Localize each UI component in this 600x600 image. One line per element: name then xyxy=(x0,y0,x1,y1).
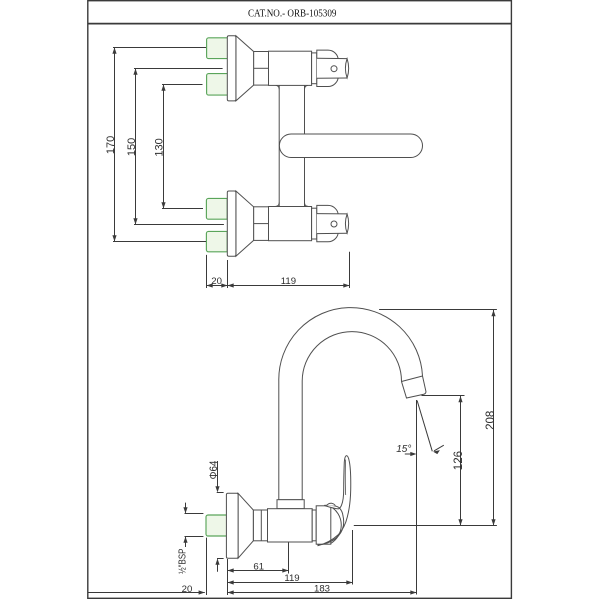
spout top ref line xyxy=(379,309,497,311)
svg-text:170: 170 xyxy=(105,136,117,154)
ext wall xyxy=(227,559,229,595)
dim 20/119 baseline xyxy=(207,285,350,287)
lower inlet assembly xyxy=(227,191,348,256)
bsp line lower xyxy=(185,537,187,548)
neck band xyxy=(312,53,317,84)
dim 20 leader line xyxy=(89,592,205,594)
spout pipe (top view) xyxy=(279,134,422,158)
dim 130 ext bottom xyxy=(162,208,203,210)
nose end cap xyxy=(345,59,348,78)
dim texts side view xyxy=(176,411,496,595)
neck band xyxy=(312,208,317,239)
phi64 upper stub xyxy=(217,461,219,488)
handle nose cylinder xyxy=(317,58,347,78)
dim 130 ext top xyxy=(162,84,203,86)
svg-text:20: 20 xyxy=(182,584,193,595)
nipple G1 xyxy=(207,38,228,59)
nozzle ref line xyxy=(422,395,465,397)
wall-bar column xyxy=(278,85,280,207)
svg-text:20: 20 xyxy=(211,276,222,287)
svg-text:61: 61 xyxy=(253,561,264,572)
svg-text:208: 208 xyxy=(485,411,497,430)
bell top bump xyxy=(327,503,336,505)
dim 150 ext top xyxy=(134,68,223,70)
flange cone side xyxy=(238,493,253,558)
dim 150 ext bottom xyxy=(134,224,224,226)
axis ref line xyxy=(354,525,497,527)
slant end leader xyxy=(434,445,444,451)
flange plate xyxy=(227,191,236,256)
riser collar xyxy=(277,500,304,509)
small connector rect xyxy=(254,207,269,241)
valve body xyxy=(268,509,313,542)
dim 130 line xyxy=(163,85,165,209)
arrows of side view xyxy=(183,310,495,595)
bsp ref lower xyxy=(185,536,204,538)
screw hole xyxy=(331,221,337,227)
svg-text:126: 126 xyxy=(453,451,465,470)
nipple G2 xyxy=(207,74,228,96)
phi64 lower ref xyxy=(217,558,224,560)
ext body axis xyxy=(288,543,290,574)
ext line left xyxy=(206,255,208,288)
lever blade xyxy=(318,456,351,546)
dim 126 line xyxy=(460,396,462,526)
column fillets xyxy=(276,85,308,206)
phi64 upper ref xyxy=(217,492,224,494)
ext line from nozzle to 183 xyxy=(416,400,418,595)
flange plate xyxy=(227,36,236,101)
handle bell xyxy=(317,205,339,241)
svg-text:119: 119 xyxy=(284,573,299,584)
upper inlet assembly xyxy=(227,36,348,101)
dim 208 line xyxy=(493,310,495,526)
gooseneck spout xyxy=(279,308,426,500)
svg-text:15°: 15° xyxy=(396,444,411,455)
svg-text:CAT.NO.- ORB-105309: CAT.NO.- ORB-105309 xyxy=(248,8,337,20)
ext line mid xyxy=(227,260,229,288)
15 deg slant line xyxy=(417,401,432,452)
nipple G4 xyxy=(206,231,227,251)
svg-text:½"BSP: ½"BSP xyxy=(176,549,188,575)
body block U2 xyxy=(269,207,312,241)
svg-text:183: 183 xyxy=(314,583,330,594)
green nipple side view xyxy=(206,515,227,536)
blade inner line xyxy=(344,460,346,496)
dimensions of top view xyxy=(113,48,350,289)
handle bell side xyxy=(316,506,331,544)
arrows of top view xyxy=(112,48,349,288)
15 deg leader xyxy=(405,453,415,455)
handle nose cylinder xyxy=(317,214,347,234)
nose end cap xyxy=(345,214,348,233)
frame border xyxy=(88,1,512,599)
bsp ref upper xyxy=(185,513,204,515)
dimensions of side view xyxy=(89,310,497,596)
bell dome D-arc xyxy=(331,507,341,544)
handle bell xyxy=(317,50,339,86)
dim texts top view xyxy=(105,136,296,287)
small connector rect xyxy=(254,52,269,86)
dim 183 line xyxy=(228,592,417,594)
hex connector xyxy=(253,510,267,541)
dim 170 ext top xyxy=(113,47,206,49)
ext lever reach xyxy=(352,530,354,585)
nipple G3 xyxy=(206,198,227,219)
dim 119 line xyxy=(228,582,353,584)
green wall nipples, top view xyxy=(206,38,227,252)
svg-text:130: 130 xyxy=(153,138,165,156)
dim 170 ext bottom xyxy=(113,241,206,243)
body block U1 xyxy=(269,51,312,85)
svg-text:150: 150 xyxy=(126,138,138,156)
phi64 lower stub xyxy=(217,559,219,572)
bsp line upper xyxy=(185,503,187,513)
dim 170 line xyxy=(114,48,116,242)
dim 61 line xyxy=(228,570,289,572)
flange cone xyxy=(236,36,254,101)
nozzle cut line xyxy=(402,376,423,382)
screw hole xyxy=(331,66,337,72)
ext line right xyxy=(349,252,351,288)
ext nipple xyxy=(206,538,208,595)
flange plate side xyxy=(226,493,238,558)
flange cone xyxy=(236,191,254,256)
svg-text:Φ64: Φ64 xyxy=(208,461,220,480)
neck band side xyxy=(312,510,316,541)
svg-text:119: 119 xyxy=(281,276,296,287)
dim 150 line xyxy=(135,69,137,225)
title separator xyxy=(88,23,511,25)
